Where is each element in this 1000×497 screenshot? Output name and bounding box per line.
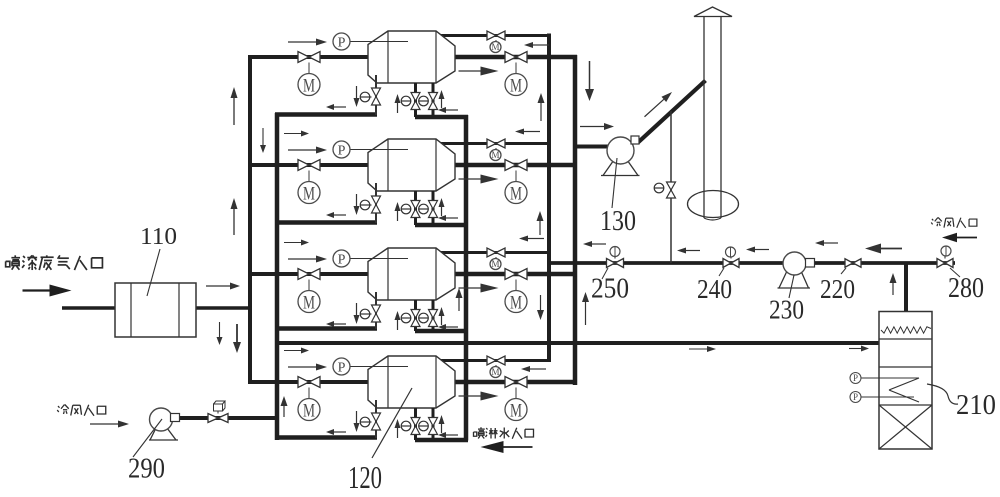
svg-text:P: P bbox=[338, 361, 346, 376]
svg-text:M: M bbox=[491, 367, 499, 377]
svg-text:M: M bbox=[491, 150, 499, 160]
svg-text:M: M bbox=[510, 75, 522, 96]
svg-text:110: 110 bbox=[140, 224, 177, 250]
svg-text:130: 130 bbox=[600, 205, 636, 237]
svg-text:230: 230 bbox=[769, 294, 804, 325]
svg-text:P: P bbox=[853, 392, 858, 402]
svg-text:220: 220 bbox=[820, 273, 855, 304]
svg-text:P: P bbox=[853, 373, 858, 383]
svg-text:M: M bbox=[510, 400, 522, 421]
svg-text:280: 280 bbox=[948, 273, 984, 304]
svg-text:M: M bbox=[491, 259, 499, 269]
svg-text:120: 120 bbox=[348, 459, 382, 492]
svg-text:M: M bbox=[303, 400, 315, 421]
svg-text:M: M bbox=[303, 183, 315, 204]
svg-text:M: M bbox=[510, 292, 522, 313]
svg-text:250: 250 bbox=[591, 274, 629, 305]
svg-text:P: P bbox=[338, 36, 346, 51]
svg-text:P: P bbox=[338, 144, 346, 159]
svg-text:M: M bbox=[491, 42, 499, 52]
svg-text:M: M bbox=[303, 75, 315, 96]
svg-text:M: M bbox=[510, 183, 522, 204]
svg-text:M: M bbox=[303, 292, 315, 313]
svg-text:P: P bbox=[338, 253, 346, 268]
svg-text:240: 240 bbox=[697, 273, 732, 304]
svg-text:290: 290 bbox=[128, 454, 165, 485]
svg-text:210: 210 bbox=[956, 390, 996, 421]
